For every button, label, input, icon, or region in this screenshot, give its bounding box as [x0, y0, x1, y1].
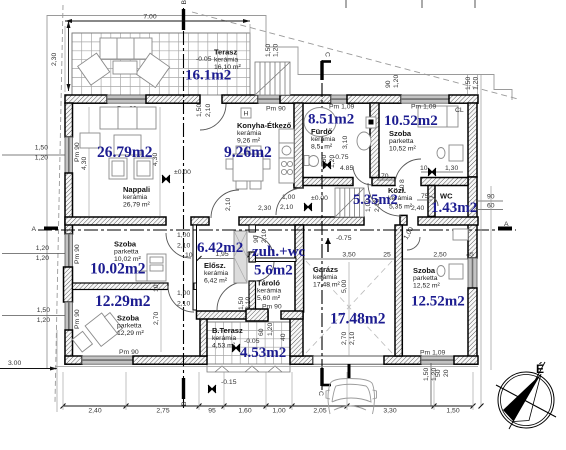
svg-text:B.Terasz: B.Terasz	[212, 326, 243, 335]
svg-text:Szoba: Szoba	[389, 129, 412, 138]
svg-text:1,20: 1,20	[36, 255, 49, 262]
svg-text:4,53 m²: 4,53 m²	[212, 343, 236, 350]
wall hall/WC	[428, 186, 435, 217]
svg-text:9.26m2: 9.26m2	[224, 144, 272, 161]
svg-text:Garázs: Garázs	[313, 265, 338, 274]
door arc shower	[253, 236, 273, 256]
svg-text:10.52m2: 10.52m2	[384, 113, 438, 129]
bottom dimension chain	[63, 405, 473, 407]
bedroom 10.02 furniture	[136, 254, 166, 281]
svg-text:1,00: 1,00	[177, 232, 190, 239]
svg-text:1,20: 1,20	[37, 317, 50, 324]
svg-text:Pm 90: Pm 90	[74, 309, 81, 329]
bathroom fixtures	[304, 108, 376, 167]
left wall lower segment	[65, 330, 73, 364]
window bath top	[331, 95, 347, 103]
door arc bedroom 12.52	[407, 237, 420, 250]
middle wall segment near section B	[191, 217, 209, 225]
svg-text:8: 8	[399, 179, 406, 183]
svg-text:1,20: 1,20	[393, 75, 400, 88]
terrace entry stairs	[255, 62, 290, 95]
svg-text:1,50: 1,50	[265, 44, 272, 57]
back terrace left wall	[200, 312, 207, 356]
svg-text:Pm 1,09: Pm 1,09	[329, 104, 355, 111]
section line A-A	[38, 229, 516, 231]
door arc bedroom 10.52	[395, 159, 421, 185]
top wall segment top-right corner	[449, 95, 478, 103]
svg-text:8,5. m²: 8,5. m²	[311, 144, 333, 151]
svg-text:1,30: 1,30	[445, 165, 458, 172]
bottom wall left corner	[65, 356, 82, 364]
bottom wall right corner	[454, 356, 478, 364]
top edge ticks	[345, 0, 347, 8]
level marker	[232, 344, 240, 352]
right dimension extension lines	[480, 74, 482, 406]
pillar above back terrace	[246, 309, 268, 321]
svg-text:CL: CL	[455, 107, 464, 114]
svg-text:45: 45	[466, 252, 474, 259]
svg-text:Konyha-Étkező: Konyha-Étkező	[237, 121, 292, 130]
partition shower/storage	[256, 258, 297, 262]
back terrace floor grid (B.Terasz)	[207, 322, 290, 364]
svg-text:C: C	[317, 391, 324, 396]
partition between left bedrooms	[73, 283, 169, 290]
svg-text:2,05: 2,05	[313, 408, 326, 415]
svg-text:7.00: 7.00	[143, 14, 156, 21]
svg-text:3.00: 3.00	[8, 360, 21, 367]
door arc terrace door	[200, 104, 226, 130]
svg-text:kerámia: kerámia	[313, 274, 337, 281]
left wall pillar segment	[64, 267, 73, 302]
svg-text:4.53m2: 4.53m2	[240, 345, 286, 361]
terrace floor grid (Terasz)	[72, 33, 250, 95]
svg-text:A: A	[504, 221, 509, 228]
svg-text:12,29 m²: 12,29 m²	[117, 330, 145, 337]
svg-text:1,50: 1,50	[37, 307, 50, 314]
dashed boundary line left	[55, 5, 63, 402]
svg-text:B: B	[181, 401, 188, 406]
middle wall block left of bedroom door	[400, 215, 407, 225]
svg-text:1,20: 1,20	[273, 44, 280, 57]
svg-text:10.02m2: 10.02m2	[90, 261, 146, 278]
svg-text:8.51m2: 8.51m2	[308, 112, 354, 128]
svg-text:zuh.+wc: zuh.+wc	[252, 244, 305, 260]
svg-text:-0.05: -0.05	[196, 56, 212, 63]
svg-text:12.52m2: 12.52m2	[411, 294, 465, 310]
garage door opening	[313, 356, 384, 364]
window Pm90 living room top	[107, 95, 146, 103]
svg-text:H: H	[244, 111, 249, 118]
svg-text:2,75: 2,75	[156, 408, 169, 415]
bottom wall left of back terrace	[133, 356, 207, 364]
svg-text:-0.05: -0.05	[244, 338, 260, 345]
garage dashed diagonals	[306, 261, 392, 353]
left dimension 1,50/1,20 bedroom2 window	[2, 315, 65, 317]
wall kitchen/bathroom	[294, 103, 303, 188]
wall below top-right bedroom	[421, 178, 468, 186]
svg-text:2,10: 2,10	[245, 297, 252, 310]
svg-text:95: 95	[208, 408, 216, 415]
middle wall segment below WC	[418, 217, 478, 225]
right dimension 90/60 WC	[477, 200, 503, 202]
svg-text:1,20: 1,20	[329, 155, 336, 168]
car in driveway	[326, 379, 377, 415]
dashed diagonal roof line	[192, 12, 518, 99]
left dimension 1,20/1,20 bedroom1 window	[2, 253, 65, 255]
window Pm1,09 bedroom top	[401, 95, 449, 103]
svg-text:Szoba: Szoba	[117, 314, 140, 323]
svg-text:17,48 m²: 17,48 m²	[313, 282, 341, 289]
svg-text:2,70: 2,70	[341, 332, 348, 345]
left wall upper segment	[65, 103, 73, 137]
window Pm90 kitchen top	[258, 95, 280, 103]
svg-text:1,50: 1,50	[465, 77, 472, 90]
door arc kitchen left	[211, 190, 239, 218]
svg-text:Pm 90: Pm 90	[74, 244, 81, 264]
svg-text:12.29m2: 12.29m2	[95, 293, 151, 310]
svg-text:4,30: 4,30	[81, 157, 88, 170]
wall garage/bedroom	[395, 225, 402, 356]
svg-text:2,40: 2,40	[411, 205, 424, 212]
eaves overhang outline	[47, 16, 512, 369]
svg-text:1,00: 1,00	[282, 194, 295, 201]
svg-text:kerámia: kerámia	[311, 136, 335, 143]
hall width dim	[199, 258, 246, 260]
bedroom 10.52 furniture	[418, 106, 463, 161]
svg-text:10,52 m²: 10,52 m²	[389, 146, 417, 153]
living room internal dim lines	[88, 107, 90, 216]
svg-text:2,10: 2,10	[349, 332, 356, 345]
level marker	[428, 168, 436, 176]
svg-text:1,20: 1,20	[473, 77, 480, 90]
svg-text:Szoba: Szoba	[114, 240, 137, 249]
wall above back terrace right part	[281, 311, 303, 319]
section line B-B	[183, 8, 185, 408]
svg-text:5,60 m²: 5,60 m²	[257, 295, 281, 302]
top wall segment left of living-room window	[65, 95, 107, 103]
right wall lower segment	[468, 288, 477, 364]
level marker	[208, 385, 216, 393]
top wall segment right of living-room window	[146, 95, 200, 103]
svg-text:parketta: parketta	[389, 138, 414, 145]
svg-text:1,50: 1,50	[35, 145, 48, 152]
door arc wc	[428, 196, 438, 206]
bedroom 12.29 furniture	[72, 313, 122, 352]
svg-text:26,79 m²: 26,79 m²	[123, 202, 151, 209]
svg-text:1,20: 1,20	[35, 155, 48, 162]
svg-text:Szoba: Szoba	[413, 266, 436, 275]
svg-text:3,30: 3,30	[383, 408, 396, 415]
wall back-terrace/garage	[290, 312, 303, 356]
svg-text:12,52 m²: 12,52 m²	[413, 283, 441, 290]
middle wall segment living room left	[65, 217, 166, 225]
svg-text:±0.00: ±0.00	[311, 195, 328, 202]
svg-text:16.1m2: 16.1m2	[185, 68, 231, 84]
svg-text:20: 20	[443, 369, 450, 377]
svg-text:A: A	[31, 226, 36, 233]
svg-text:25: 25	[383, 252, 391, 259]
svg-text:kerámia: kerámia	[214, 57, 238, 64]
svg-text:kerámia: kerámia	[257, 288, 281, 295]
left dimension 3.00	[0, 368, 57, 370]
svg-text:70: 70	[381, 173, 389, 180]
right wall upper segment	[468, 103, 477, 177]
door arc back terrace	[217, 282, 245, 310]
svg-text:1,60: 1,60	[238, 408, 251, 415]
svg-text:-0.15: -0.15	[221, 379, 237, 386]
right wall middle segment	[468, 177, 477, 258]
svg-text:Elősz.: Elősz.	[204, 261, 226, 270]
door arc storage	[256, 262, 275, 281]
left vertical dimension 2,30	[68, 21, 70, 91]
kitchen H box	[241, 108, 251, 118]
svg-text:90: 90	[385, 80, 392, 88]
svg-text:Terasz: Terasz	[214, 48, 237, 57]
svg-text:±0.00: ±0.00	[174, 169, 191, 176]
kitchen table and chairs	[226, 146, 270, 189]
window Pm90 bedroom2 bottom	[82, 356, 133, 364]
svg-text:2,10: 2,10	[225, 198, 232, 211]
door arc kitchen right	[276, 188, 303, 215]
bedroom 12.52 furniture	[437, 229, 468, 279]
svg-text:2,10: 2,10	[205, 104, 212, 117]
door arc bathroom	[353, 166, 372, 185]
svg-text:Pm 1,09: Pm 1,09	[420, 350, 446, 357]
svg-text:1,50: 1,50	[196, 104, 203, 117]
svg-text:5,00: 5,00	[341, 280, 348, 293]
bottom wall right of back terrace	[290, 356, 313, 364]
window Pm90 living room left	[65, 137, 73, 173]
svg-text:4.85: 4.85	[340, 165, 353, 172]
svg-text:2,10: 2,10	[177, 243, 190, 250]
svg-text:6,42 m²: 6,42 m²	[204, 278, 228, 285]
svg-text:10: 10	[420, 165, 428, 172]
level marker	[304, 203, 312, 211]
section line C-C	[321, 60, 323, 390]
wall below bathroom	[294, 178, 353, 186]
left dimension 1,50/1,20 window living room	[2, 154, 65, 156]
window Pm90 bedroom1 left	[65, 234, 73, 267]
compass rose	[496, 362, 556, 429]
partition bedroom1/hall	[193, 225, 197, 310]
svg-text:Pm 90: Pm 90	[262, 304, 282, 311]
svg-text:kerámia: kerámia	[123, 194, 147, 201]
svg-text:1,50: 1,50	[321, 155, 328, 168]
living room furniture	[80, 107, 156, 179]
bottom wall garage/bedroom	[384, 356, 421, 364]
svg-text:kerámia: kerámia	[237, 130, 261, 137]
svg-text:2,10: 2,10	[261, 230, 268, 243]
door arc bedroom1	[166, 233, 191, 258]
svg-text:parketta: parketta	[117, 323, 142, 330]
window Pm1,09 bedroom bottom	[421, 356, 454, 364]
back terrace edge steps	[207, 364, 290, 372]
svg-text:2,10: 2,10	[177, 301, 190, 308]
svg-text:75: 75	[421, 193, 429, 200]
svg-text:parketta: parketta	[114, 249, 139, 256]
svg-text:B: B	[181, 0, 188, 5]
partition hall/storage	[249, 252, 256, 262]
svg-text:Fürdő: Fürdő	[311, 127, 333, 136]
level marker	[162, 175, 170, 183]
wall between bath door and bedroom door	[372, 178, 395, 186]
svg-text:Tároló: Tároló	[257, 279, 280, 288]
top wall segment kitchen left	[222, 95, 258, 103]
svg-text:1,50: 1,50	[446, 408, 459, 415]
hall stairs down to garage	[335, 188, 364, 217]
middle wall segment kitchen right	[239, 217, 364, 225]
svg-text:1,00: 1,00	[272, 408, 285, 415]
svg-text:1,50: 1,50	[423, 368, 430, 381]
svg-text:3,50: 3,50	[342, 252, 355, 259]
svg-text:2,30: 2,30	[51, 53, 58, 66]
top wall segment bath/bedroom	[347, 95, 401, 103]
top dimension 7.00	[65, 20, 250, 22]
svg-text:Pm 1,09: Pm 1,09	[411, 104, 437, 111]
svg-text:26.79m2: 26.79m2	[97, 144, 153, 161]
svg-text:2,30: 2,30	[258, 205, 271, 212]
svg-text:60: 60	[258, 328, 265, 336]
svg-text:1.43m2: 1.43m2	[431, 200, 477, 216]
svg-text:kerámia: kerámia	[212, 335, 236, 342]
svg-text:1,20: 1,20	[36, 245, 49, 252]
left wall middle segment	[65, 173, 73, 234]
wall storage/garage upper	[295, 225, 304, 312]
svg-text:2,70: 2,70	[153, 312, 160, 325]
svg-text:Pm 90: Pm 90	[266, 106, 286, 113]
svg-text:2,40: 2,40	[88, 408, 101, 415]
svg-text:17.48m2: 17.48m2	[330, 311, 386, 328]
svg-text:2,50: 2,50	[433, 252, 446, 259]
door arc bedroom2	[168, 286, 194, 312]
wall bathroom/bedroom	[370, 103, 379, 178]
hallway closet	[234, 231, 247, 283]
door arc hall	[368, 183, 401, 216]
svg-text:40: 40	[280, 333, 287, 341]
svg-text:1,00: 1,00	[177, 290, 190, 297]
kitchen counter	[279, 129, 294, 183]
right dim 1,50/1,20 under bedroom	[430, 363, 432, 406]
wall above back terrace left part	[197, 311, 269, 319]
svg-text:2,10: 2,10	[280, 204, 293, 211]
level marker	[323, 161, 331, 169]
svg-text:10: 10	[153, 284, 160, 292]
svg-text:6.42m2: 6.42m2	[197, 240, 243, 256]
svg-text:É: É	[536, 361, 544, 376]
svg-text:5.35m2: 5.35m2	[353, 192, 398, 208]
svg-text:1,20: 1,20	[267, 323, 274, 336]
terrace sofa set	[78, 38, 170, 88]
window Pm90 bedroom2 left	[65, 302, 73, 330]
svg-text:1,50: 1,50	[238, 297, 245, 310]
svg-text:parketta: parketta	[413, 275, 438, 282]
bottom second line	[55, 366, 478, 368]
svg-text:Nappali: Nappali	[123, 185, 150, 194]
svg-text:3,10: 3,10	[342, 136, 349, 149]
svg-text:Pm 90: Pm 90	[119, 349, 139, 356]
top wall segment kitchen/bath	[280, 95, 331, 103]
svg-text:5.6m2: 5.6m2	[254, 263, 293, 279]
svg-text:-0.75: -0.75	[336, 235, 352, 242]
svg-text:C: C	[324, 52, 331, 57]
window bedroom right	[468, 258, 477, 288]
svg-text:50: 50	[435, 369, 442, 377]
svg-text:kerámia: kerámia	[204, 270, 228, 277]
